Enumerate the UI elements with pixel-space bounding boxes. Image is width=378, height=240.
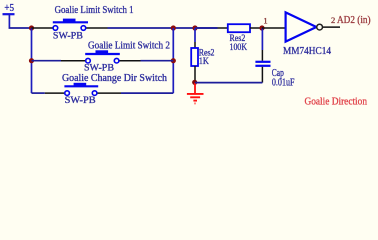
wire R1 drop <box>194 28 196 42</box>
switch S2 SW-PB <box>61 50 141 73</box>
wire inverter input pin <box>262 27 286 29</box>
svg-text:2: 2 <box>331 15 335 25</box>
wire row2 right <box>141 60 174 62</box>
svg-text:+5: +5 <box>4 3 14 14</box>
capacitor C1 Cap 0.01uF <box>255 50 294 88</box>
svg-text:0.01uF: 0.01uF <box>272 77 295 88</box>
node E junction top of R1 <box>192 25 197 30</box>
switch S1 SW-PB <box>32 19 108 42</box>
svg-text:AD2 (in): AD2 (in) <box>337 15 371 26</box>
node G cap junction <box>259 25 264 30</box>
svg-text:Goalie Limit Switch 1: Goalie Limit Switch 1 <box>55 5 134 16</box>
switch S3 SW-PB <box>45 83 121 106</box>
svg-text:SW-PB: SW-PB <box>65 96 96 106</box>
wire row1 to right rail <box>108 27 218 29</box>
ground symbol <box>187 83 204 104</box>
wire cap drop <box>261 28 263 50</box>
node C junction row1/right rail <box>171 25 176 30</box>
wire output pin 2 <box>323 26 341 28</box>
wire row2 left <box>32 60 62 62</box>
svg-text:1: 1 <box>263 16 267 26</box>
svg-text:1K: 1K <box>199 57 209 67</box>
wire row3 left <box>32 92 45 94</box>
node D junction row2 right <box>171 58 176 63</box>
op-amp U1 inverter MM74HC14 <box>283 12 331 57</box>
wire right rail <box>172 28 174 93</box>
wire cap to ground <box>195 82 262 84</box>
node F ground junction <box>192 80 197 85</box>
wire left rail <box>31 28 33 93</box>
node B junction row2 left <box>29 58 34 63</box>
power +5 symbol <box>3 3 15 28</box>
svg-text:SW-PB: SW-PB <box>53 31 83 41</box>
svg-text:Goalie Direction: Goalie Direction <box>305 96 368 108</box>
wire row3 right <box>121 92 173 94</box>
svg-text:MM74HC14: MM74HC14 <box>283 46 331 57</box>
resistor R1 Res2 1K <box>191 42 215 81</box>
svg-text:Goalie Limit Switch 2: Goalie Limit Switch 2 <box>88 40 170 51</box>
node A junction <box>29 25 34 30</box>
svg-text:Goalie Change Dir Switch: Goalie Change Dir Switch <box>62 73 167 84</box>
wire row1 R2 left <box>195 27 218 29</box>
resistor R2 Res2 100K <box>218 24 263 53</box>
wire +5 corner to node A <box>9 27 31 30</box>
svg-text:100K: 100K <box>230 43 248 53</box>
